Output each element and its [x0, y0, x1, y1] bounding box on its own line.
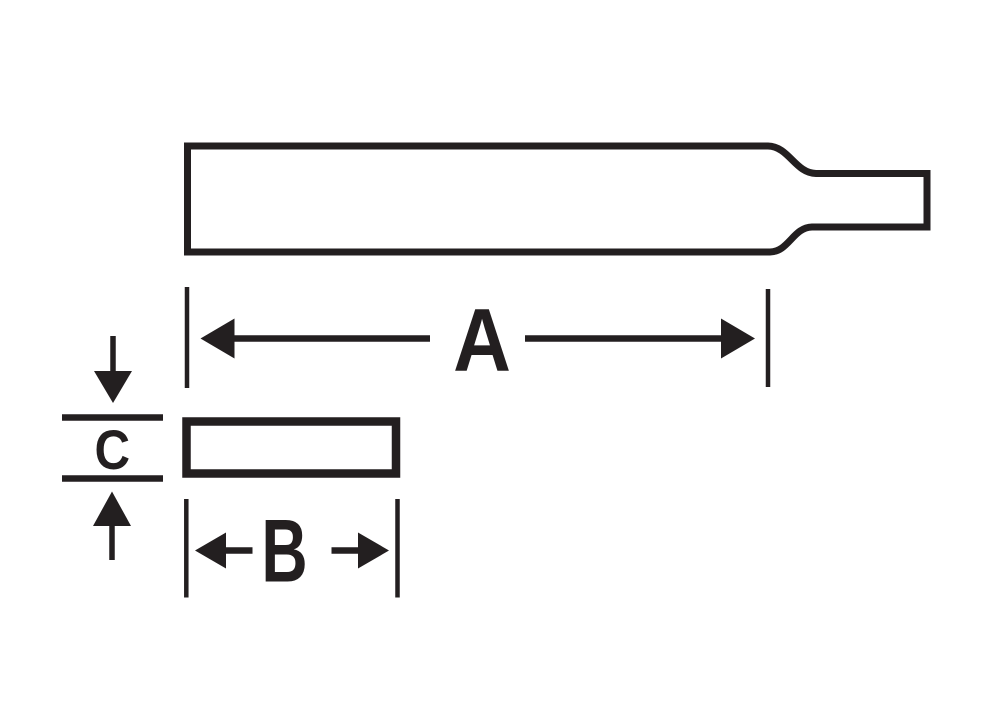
dimension C top witness line	[62, 414, 163, 421]
file blank outline (body with tang)	[188, 146, 928, 252]
dimension C bottom witness line	[62, 475, 163, 482]
dimension A left arrowhead	[201, 319, 235, 359]
svg-text:C: C	[95, 419, 131, 482]
dimension B left arrowhead	[195, 533, 226, 569]
dimension B right arrowhead	[358, 533, 389, 569]
dimension B right line segment	[332, 547, 360, 554]
dimension A left extension line	[185, 287, 190, 388]
dimension A right extension line	[766, 289, 771, 387]
cross-section rectangle	[187, 422, 397, 474]
dimension B left extension line	[184, 499, 189, 598]
dimension B left line segment	[225, 547, 253, 554]
svg-text:B: B	[261, 502, 307, 601]
dimension C up arrow shaft	[109, 524, 115, 560]
dimension B right extension line	[395, 499, 400, 598]
dimension A right arrowhead	[721, 319, 755, 359]
dimension C down arrowhead	[94, 371, 132, 403]
dimension C down arrow shaft	[110, 336, 116, 373]
dimension A right line segment	[525, 335, 722, 342]
dimension C up arrowhead	[93, 492, 131, 527]
dimension A left line segment	[233, 335, 430, 342]
svg-text:A: A	[453, 290, 511, 390]
